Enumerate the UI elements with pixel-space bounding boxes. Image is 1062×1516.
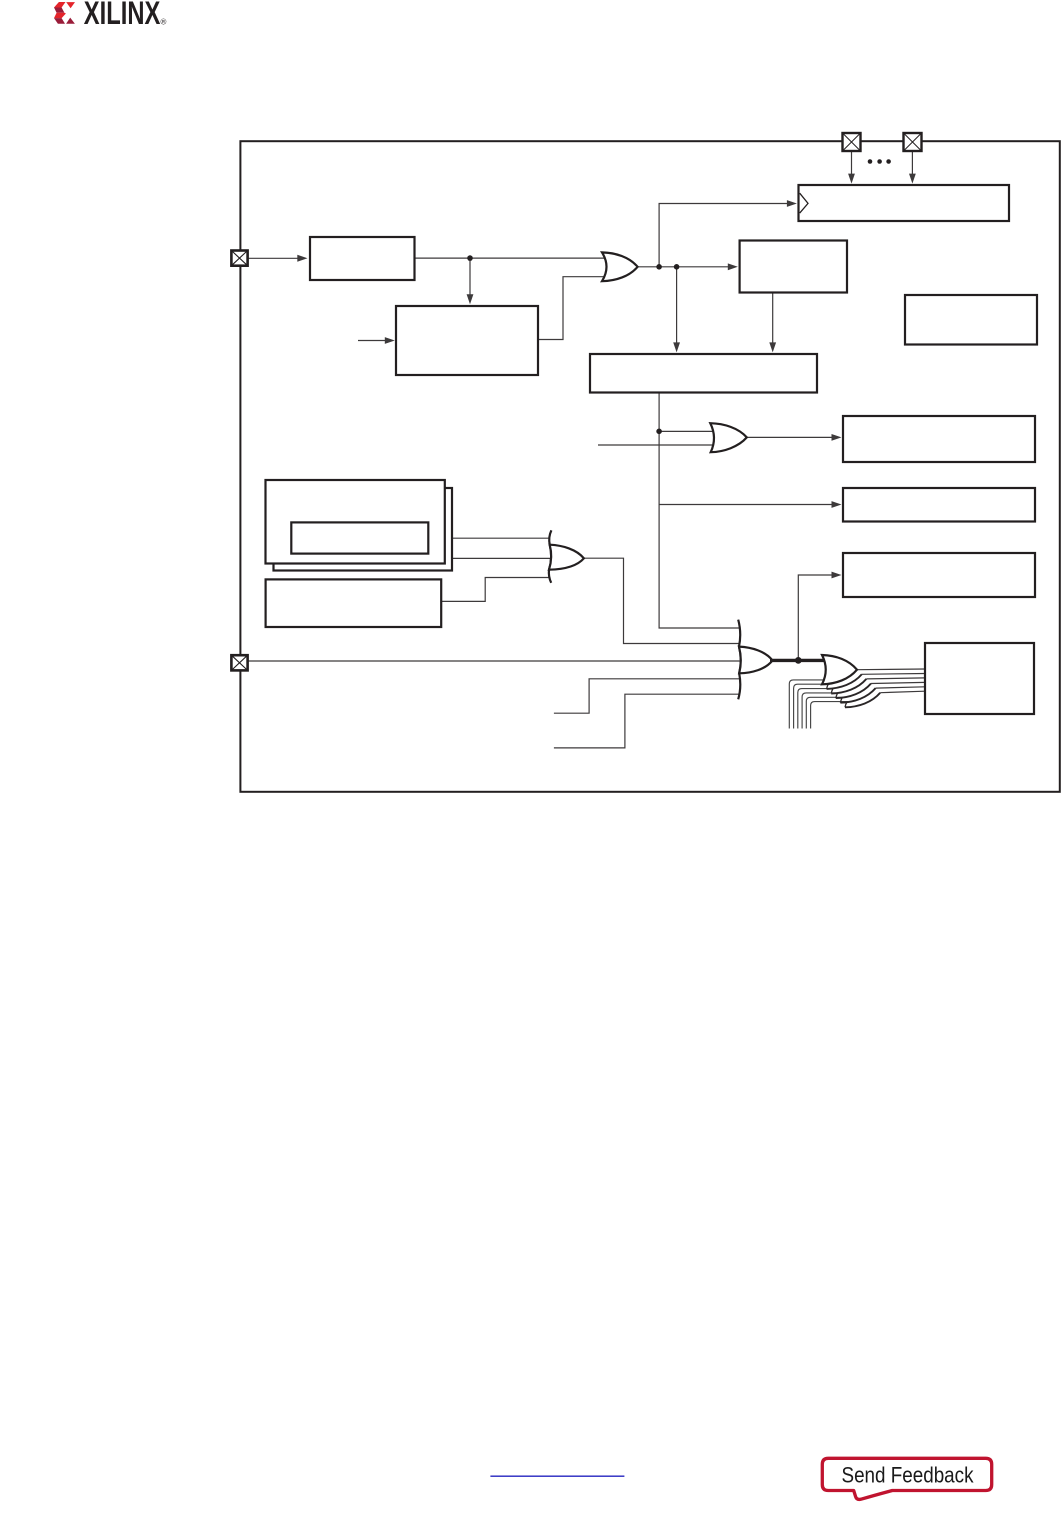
stacked gate face tick 1 [827,684,829,689]
wire: OR1 output to box3 [638,266,731,268]
thick wire: OR5 output [770,659,824,662]
svg-text:XILINX: XILINX [84,0,161,31]
Send Feedback button [822,1458,991,1499]
block box1 [310,237,415,280]
logo mark top-right triangle (red) [66,2,75,8]
wire: OR3 output to OR5 input2 [584,558,739,643]
ellipsis dot 1 [868,159,873,164]
bundle output line 5 [876,687,925,688]
wire bundle input 5 [806,697,843,728]
arrowhead into box3 [728,263,738,270]
wire: box3 down to box5 [772,293,774,346]
bundle of 7 curved wires to box10 [789,680,848,729]
block box5 [590,354,817,393]
pad B [231,655,247,670]
logo mark bottom-right triangle (maroon) [66,18,75,24]
OR gate G3 [549,545,584,570]
ellipsis dot 2 [877,159,882,164]
wire: box5 down with taps to OR5 [659,393,739,629]
arrowhead pad C into register [848,174,855,184]
stacked register front box [266,480,445,564]
bundle output line 4 [871,682,925,683]
block box4 [905,295,1037,345]
wire: stub to OR5 input4 [554,679,739,713]
OR gate G2 [710,423,747,452]
arrowhead into box2 top [467,294,474,304]
arrowhead into capture register left [787,200,797,207]
wire: pad C down to register [851,151,853,177]
wire bundle input 3 [798,689,834,729]
wire bundle input 1 [789,680,825,729]
stacked gate crescent 4 [840,688,875,703]
wire: box1 to OR1 [415,257,605,259]
block box2 [396,306,538,375]
wire: inner stack box to OR3 [428,537,550,539]
logo mark stripe 3 (red) [54,13,66,18]
wire: tap to box7 [659,504,834,506]
logo mark stripe 4 (maroon) [54,18,65,24]
wire: pad D down to register [911,151,913,177]
wire: box9 to OR3 lower input [441,578,550,602]
junction dot OR5 output [795,657,802,664]
block box8 [843,553,1035,597]
block box6 [843,416,1035,462]
bundle output line 2 [862,673,925,676]
OR gate G5 [739,647,773,674]
pad C [843,133,861,151]
wire: OR5 out up to box8 [798,575,834,660]
junction dot OR1 out 1 [656,264,662,270]
bundle output line 3 [866,678,925,679]
bundle output line 1 [857,668,925,671]
svg-text:®: ® [161,18,167,27]
wire: stub into box2 left [358,340,387,342]
wire: pad A to box1 [248,257,299,259]
arrowhead into box5 from OR1 [673,342,680,352]
stacked gate crescent 2 [831,679,866,694]
wire: stub to OR5 input5 [554,694,739,748]
junction dot OR1 out 2 [674,264,680,270]
pad D [904,133,922,151]
footer link rule [490,1475,624,1477]
junction dot OR2 tap [656,429,662,435]
arrowhead into box1 [297,255,307,262]
wire: OR2 output to box6 [747,436,834,438]
pad A [231,251,247,266]
blocks layer [266,185,1038,714]
block box3 [740,241,847,293]
wire: back stack box to OR3 [452,557,550,559]
block box7 [843,488,1035,522]
capture register (chevron box) [799,185,1010,221]
wire bundle input 2 [794,684,830,728]
wire bundle input 6 [811,702,848,729]
stacked gate crescent 1 [827,674,862,689]
wires layer [248,151,912,748]
stacked register inner box [291,522,428,553]
OR gate G5 input brace [738,620,741,700]
OR gate G3 input brace [549,530,552,583]
wire: OR1 output up to capture register [659,204,790,267]
bundle output line 6 [880,691,925,693]
block box9 [266,579,442,627]
OR gate G1 [602,252,638,281]
wire: box2 to OR1 lower input [538,277,604,340]
wire: pad B to OR5 input3 [248,660,740,662]
wire: junction down into box2 [469,258,471,297]
arrowhead pad D into register [909,174,916,184]
arrowhead into box7 [832,501,842,508]
logo mark stripe 1 (red) [54,2,66,8]
wire bundle input 4 [802,693,839,729]
stacked gate face tick 5 [845,703,847,708]
wire: OR1 output down to box5 [676,267,678,345]
ellipsis dot 3 [886,159,891,164]
arrowhead into box8 [832,572,842,579]
stacked gate face tick 3 [836,693,838,698]
svg-text:Send Feedback: Send Feedback [842,1463,975,1488]
stacked register back box [274,488,453,571]
stacked gate crescent 3 [836,684,871,699]
OR gate G6 [822,655,857,684]
stacked gate face tick 2 [831,689,833,694]
clock chevron on capture register [800,193,808,213]
block box10 [925,643,1034,714]
arrowhead into box2 left [385,337,395,344]
wire: stub to OR2 bottom input [598,444,716,446]
junction dot on box1 output [467,255,473,261]
arrowhead into box6 [832,434,842,441]
stacked gate face tick 4 [840,698,842,703]
wire: tap to OR2 top input [659,430,716,432]
stacked gate crescent 5 [845,693,880,708]
logo mark stripe 2 (maroon) [54,8,64,13]
arrowhead into box5 from box3 [769,342,776,352]
